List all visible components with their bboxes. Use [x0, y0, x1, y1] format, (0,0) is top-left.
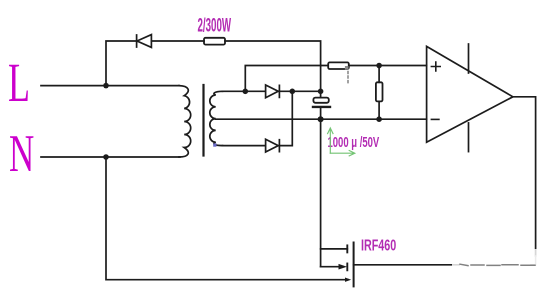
node R3-top junction — [376, 63, 382, 69]
node N junction — [103, 154, 109, 160]
diode D2 — [266, 85, 280, 98]
resistor R1 2/300W body — [204, 38, 225, 45]
wire L horizontal — [41, 85, 179, 87]
resistor R3 vertical — [378, 66, 380, 120]
gate bar bottom — [346, 264, 348, 271]
transformer T1 primary winding — [179, 86, 191, 157]
grip square blue at coil — [213, 143, 216, 146]
svg-text:1000 μ /50V: 1000 μ /50V — [328, 134, 380, 151]
diode D1 — [137, 35, 152, 48]
wire R2 to plus node — [349, 65, 427, 67]
source arrowhead — [345, 278, 351, 282]
op-amp U1 triangle — [427, 46, 513, 142]
wire D2 cathode to cap node — [279, 90, 320, 92]
wire drain to right — [354, 264, 459, 266]
wire op-amp output — [513, 97, 536, 256]
resistor R2 horizontal body — [328, 62, 349, 69]
op-amp plus sign — [431, 62, 440, 71]
node cap-top junction — [318, 89, 324, 95]
wire output vertical faded tail — [531, 256, 536, 265]
wire D3 to up join D2 node — [279, 91, 292, 145]
wire up from secondary top node to plus rail — [245, 66, 327, 92]
svg-text:2/300W: 2/300W — [198, 15, 232, 37]
transformer core — [202, 85, 204, 156]
wire secondary top — [223, 90, 266, 92]
gate arrowhead — [339, 264, 348, 270]
node L junction — [103, 83, 109, 89]
transistor Q1 channel line — [353, 243, 355, 287]
transformer T1 secondary winding — [210, 91, 223, 145]
wire gate stub top — [321, 248, 348, 250]
node diode-join junction — [290, 89, 296, 95]
wire cap to gate vertical — [320, 107, 322, 267]
capacitor C1 positive plate — [313, 98, 328, 103]
node cap-bottom junction — [318, 116, 324, 122]
wire branch L up — [106, 41, 136, 86]
svg-text:L: L — [8, 54, 30, 114]
wire N horizontal — [41, 156, 180, 158]
grip square at R2 — [345, 66, 349, 70]
wire N branch down and bottom rail — [106, 157, 348, 280]
svg-text:IRF460: IRF460 — [361, 237, 396, 255]
ucs icon green arrows — [328, 128, 355, 156]
wire R1 to corner and down — [225, 41, 321, 98]
selection dotted trail — [347, 72, 349, 85]
wire secondary bottom — [223, 145, 266, 147]
diode D3 — [266, 139, 280, 152]
node R3-bottom junction — [376, 116, 382, 122]
wire secondary center tap rail — [216, 118, 427, 120]
node secondary-top junction — [243, 89, 249, 95]
capacitor C1 negative plate — [313, 106, 330, 108]
op-amp bottom power pin — [468, 123, 470, 152]
watermark overlay — [452, 249, 548, 279]
wire D1 to R1 — [151, 40, 204, 42]
op-amp minus sign — [431, 118, 439, 120]
gate bar top — [346, 245, 348, 252]
wire gate stub bottom — [321, 266, 340, 268]
op-amp top power pin — [468, 44, 470, 73]
svg-text:N: N — [9, 124, 34, 183]
